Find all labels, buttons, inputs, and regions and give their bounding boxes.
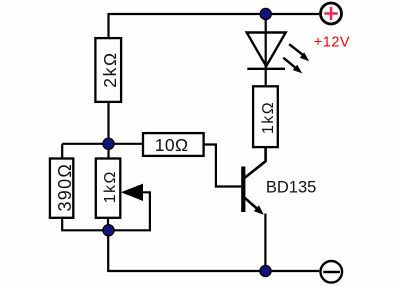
svg-text:390Ω: 390Ω <box>55 163 75 212</box>
svg-text:1kΩ: 1kΩ <box>260 101 277 134</box>
svg-text:1kΩ: 1kΩ <box>102 170 119 203</box>
svg-text:2kΩ: 2kΩ <box>100 51 120 87</box>
svg-text:10Ω: 10Ω <box>155 135 189 155</box>
svg-text:BD135: BD135 <box>266 178 316 196</box>
svg-text:+12V: +12V <box>314 35 350 51</box>
